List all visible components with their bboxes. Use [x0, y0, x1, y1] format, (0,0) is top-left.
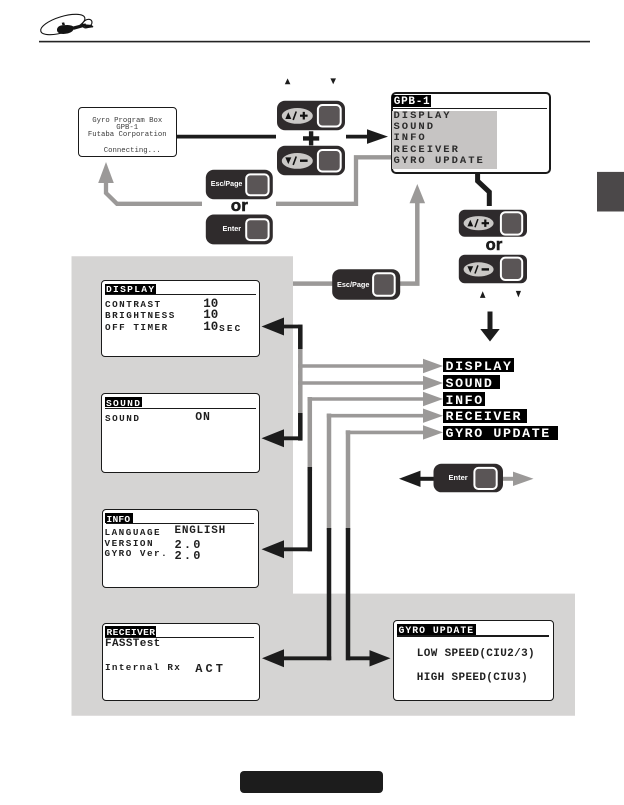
- wire: black arrow into DISPLAY box: [283, 325, 303, 329]
- plus sign between keys: [303, 131, 319, 145]
- label Enter 2: [449, 474, 468, 482]
- white gap patch between keys: [276, 127, 346, 146]
- screen: GYRO UPDATE: [393, 620, 554, 701]
- wire: gray branch to DISPLAY menu item: [298, 364, 424, 368]
- screen: DISPLAY: [101, 280, 260, 358]
- side tab: [597, 172, 624, 212]
- wire: gray branch to SOUND menu item: [298, 381, 424, 385]
- wire: INFO connector: [308, 397, 313, 471]
- wire: black arrow into SOUND box: [283, 436, 303, 440]
- helicopter logo: [38, 10, 93, 39]
- menu item DISPLAY: [443, 358, 514, 372]
- button down/- key 2: [459, 255, 527, 283]
- menu item INFO: [443, 392, 485, 406]
- button up/+ key 1: [277, 101, 345, 131]
- or label 1: [231, 197, 248, 214]
- button down/- key 1: [277, 146, 345, 176]
- gray background region: [72, 256, 576, 716]
- menu item SOUND: [443, 375, 501, 389]
- marker down-triangle below key 2: [516, 291, 521, 298]
- button Esc/Page 2: [332, 269, 400, 300]
- black down arrow above menu list: [488, 312, 493, 330]
- marker up-triangle below key 2: [480, 291, 486, 298]
- label Esc/Page 2: [337, 281, 369, 288]
- screen: RECEIVER: [102, 623, 260, 701]
- button Enter 2: [434, 464, 504, 493]
- wire: GYRO UPDATE connector: [346, 430, 351, 530]
- button Esc/Page 1: [206, 170, 273, 199]
- or label 2: [486, 237, 503, 254]
- label Enter 1: [223, 225, 242, 232]
- header rule: [39, 41, 590, 43]
- or patch 1: [202, 200, 276, 213]
- marker up-triangle above key 1: [285, 78, 291, 84]
- gray arrow right of Enter 2: [503, 477, 514, 481]
- menu item RECEIVER: [443, 409, 527, 423]
- screen: SOUND: [101, 393, 260, 473]
- button up/+ key 2: [459, 210, 527, 237]
- screen: INFO: [102, 509, 259, 588]
- arrowhead into GPB-1 screen: [367, 129, 388, 144]
- bottom black bar: [240, 771, 383, 793]
- button Enter 1: [206, 215, 273, 245]
- menu item GYRO UPDATE: [443, 426, 558, 440]
- label Esc/Page 1: [211, 181, 243, 188]
- screen: GPB-1 menu: [391, 92, 552, 174]
- wire: Gyro Program Box to GPB-1: [177, 135, 369, 139]
- wire: DISPLAY/SOUND shared vertical: [298, 327, 303, 439]
- wire: gray line left of Esc/Page 2: [293, 281, 333, 286]
- black arrow left of Enter 2: [420, 477, 434, 481]
- marker down-triangle above key 1: [330, 78, 336, 84]
- wire: RECEIVER connector: [327, 414, 332, 531]
- wire: gray return path from Esc/Page-Enter to boxes: [106, 157, 391, 204]
- screen: Gyro Program Box: [78, 107, 177, 157]
- wire: black bent line GPB-1 bottom to up/down keys: [478, 173, 490, 206]
- wire: gray line from Esc/Page 2 up to GPB-1: [400, 202, 417, 284]
